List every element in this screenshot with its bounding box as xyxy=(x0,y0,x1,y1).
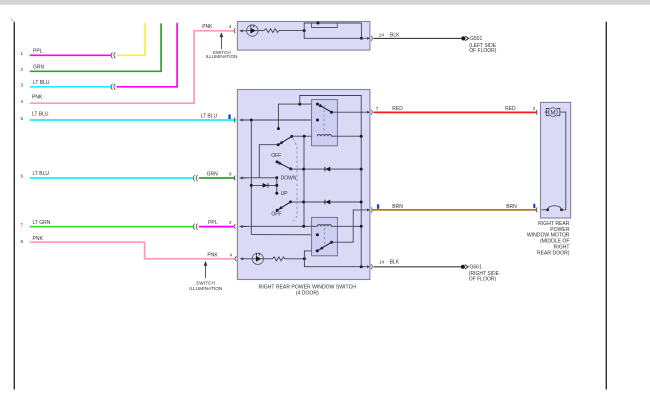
svg-text:BRN: BRN xyxy=(392,204,403,210)
svg-text:REAR DOOR): REAR DOOR) xyxy=(537,250,570,256)
node diode2 left xyxy=(302,201,305,204)
svg-text:7: 7 xyxy=(21,222,24,227)
inline connector blue marker BRN left xyxy=(377,204,379,209)
node A xyxy=(250,119,253,122)
top gray bar xyxy=(0,0,650,5)
svg-text:DOWN: DOWN xyxy=(281,176,297,182)
node diode1 right xyxy=(360,168,363,171)
right page border xyxy=(605,22,607,390)
switch blade pole 1 xyxy=(277,135,294,146)
svg-text:PNK: PNK xyxy=(32,95,43,101)
connector splice wire 3 xyxy=(111,84,115,90)
node 2 label xyxy=(21,64,45,72)
svg-text:OF FLOOR): OF FLOOR) xyxy=(469,48,497,54)
motor pin 3 entry arrow xyxy=(541,111,546,114)
wire pole3 to diode line 2 xyxy=(291,201,304,203)
wire 7 PPL continuation to pin 2 xyxy=(199,226,234,228)
svg-text:LT BLU: LT BLU xyxy=(201,114,218,120)
svg-text:RED: RED xyxy=(392,106,403,112)
pin 8 entry arrow xyxy=(239,177,247,180)
svg-text:7: 7 xyxy=(376,106,379,111)
motor pin BRN entry arrow xyxy=(541,208,546,211)
node diode feed xyxy=(250,184,253,187)
node pole1 top contact xyxy=(277,127,280,130)
node output junction xyxy=(360,37,363,40)
svg-text:PNK: PNK xyxy=(33,236,44,242)
node 1 label xyxy=(21,48,43,56)
svg-text:4: 4 xyxy=(230,253,233,258)
pin 8 connector arc xyxy=(234,176,235,180)
node diode mid xyxy=(275,184,278,187)
motor block body xyxy=(541,102,571,218)
inline connector blue marker BRN right xyxy=(533,204,535,209)
wire pole1 to relay1 coil xyxy=(292,135,318,137)
diode CR3 line 2 xyxy=(304,200,362,205)
switch blade pole 3 xyxy=(276,200,292,211)
node motor arc left xyxy=(546,208,549,211)
wire BLK to G661 xyxy=(373,266,461,268)
connector splice wire 6 xyxy=(193,175,197,181)
motor M1 symbol xyxy=(545,108,560,117)
node BLK junction xyxy=(360,265,363,268)
wire 3 PPL continuation xyxy=(117,23,178,87)
relay U2 hold contact xyxy=(316,233,319,236)
svg-text:3: 3 xyxy=(21,83,24,88)
svg-text:PPL: PPL xyxy=(33,48,43,54)
svg-text:4: 4 xyxy=(21,99,24,104)
pin LT BLU entry arrow xyxy=(239,119,247,122)
node lamp junction xyxy=(303,29,306,32)
relay U2 body xyxy=(312,217,338,255)
wire GRN riser to pole1 pivot xyxy=(259,145,278,178)
wire to relay 2 hold contact xyxy=(251,234,317,236)
svg-text:5: 5 xyxy=(21,116,24,121)
pin 14 connector arc main xyxy=(371,264,372,269)
motor brush arc xyxy=(548,206,562,210)
relay U2 blade xyxy=(316,241,333,253)
resistor R1 xyxy=(258,29,304,33)
node coil1 right xyxy=(360,135,363,138)
svg-text:G661: G661 xyxy=(470,265,482,271)
svg-text:BLK: BLK xyxy=(390,260,400,266)
relay U1 coil xyxy=(317,135,331,137)
pin 7 connector arc xyxy=(371,110,372,115)
svg-text:OFF: OFF xyxy=(271,153,281,159)
node motor arc right xyxy=(560,208,563,211)
wire top rail to right bus xyxy=(300,96,361,267)
svg-text:M: M xyxy=(551,110,556,116)
svg-text:SWITCH: SWITCH xyxy=(196,281,215,287)
svg-text:PNK: PNK xyxy=(202,24,213,30)
svg-text:GRN: GRN xyxy=(33,64,45,70)
left page border xyxy=(11,18,15,389)
wire pole1 top contact riser xyxy=(278,104,317,129)
ground G501 xyxy=(461,36,496,54)
pin 4 connector arc xyxy=(234,29,235,33)
resistor R2 xyxy=(264,257,305,261)
wire left bus xyxy=(250,120,252,235)
svg-text:GRN: GRN xyxy=(207,171,219,177)
pin 14 connector arc xyxy=(371,36,372,41)
switch block body xyxy=(237,90,370,280)
top block body xyxy=(237,22,370,51)
wire 6 LT BLU xyxy=(30,177,193,179)
wire 7 LT GRN xyxy=(30,226,193,228)
node 8 label xyxy=(21,236,44,244)
pin 4 entry arrow xyxy=(239,29,247,32)
wire DOWN-UP link xyxy=(276,178,278,194)
ground G661 xyxy=(461,265,500,283)
wire left inner bus xyxy=(303,136,305,226)
pin 14 exit arrow main xyxy=(367,265,371,268)
svg-text:RIGHT REAR POWER WINDOW SWITCH: RIGHT REAR POWER WINDOW SWITCH xyxy=(259,284,357,290)
svg-text:RED: RED xyxy=(505,106,516,112)
node top rail tap xyxy=(298,103,301,106)
motor pin 3 connector arc xyxy=(536,110,537,114)
svg-text:PPL: PPL xyxy=(208,220,218,226)
svg-text:8: 8 xyxy=(229,171,232,176)
wire lamp junction to pin 14 xyxy=(304,31,366,39)
diode CR1 xyxy=(251,183,276,188)
wire LT BLU feed xyxy=(243,119,318,121)
wire 1 YEL continuation xyxy=(117,23,146,55)
wire BLK to G501 xyxy=(373,37,462,39)
node diode2 right xyxy=(360,201,363,204)
dashed linkage line xyxy=(293,138,297,221)
pin BRN exit arrow xyxy=(367,208,371,211)
motor pin BRN connector arc xyxy=(536,208,537,212)
pin 14 label main xyxy=(379,260,400,266)
svg-text:2: 2 xyxy=(21,67,24,72)
wire 3 LT BLU xyxy=(30,86,111,88)
relay U2 dashed actuator xyxy=(324,228,326,245)
svg-text:BLK: BLK xyxy=(390,33,400,39)
svg-text:2: 2 xyxy=(533,106,536,111)
svg-text:G501: G501 xyxy=(470,36,482,42)
wire motor internal loop xyxy=(560,112,566,210)
pin BRN connector arc xyxy=(371,208,372,213)
node coil2 right xyxy=(360,225,363,228)
svg-text:8: 8 xyxy=(21,239,24,244)
pin 4 entry arrow main xyxy=(240,257,248,260)
wire pole2 to diode line 1 xyxy=(291,168,304,170)
svg-text:LT BLU: LT BLU xyxy=(33,80,50,86)
node 4 label xyxy=(21,95,43,104)
wire riser to top rail xyxy=(303,23,305,31)
node 3 label xyxy=(21,80,50,88)
pin 14 exit arrow xyxy=(367,37,371,40)
svg-text:ILLUMINATION: ILLUMINATION xyxy=(189,286,223,292)
pin 7 label xyxy=(376,106,403,112)
pin 2 label xyxy=(208,220,232,226)
connector splice wire 7 xyxy=(193,224,197,230)
wire coil1 to right bus xyxy=(331,135,361,137)
pin LT BLU connector arc xyxy=(234,118,235,122)
svg-text:LT GRN: LT GRN xyxy=(33,220,51,226)
svg-text:2: 2 xyxy=(229,220,232,225)
node diode1 left xyxy=(302,168,305,171)
wire 1 PPL xyxy=(30,54,111,56)
wire relay2 output to BRN pin xyxy=(332,210,367,242)
svg-text:BRN: BRN xyxy=(506,204,517,210)
relay U1 blade xyxy=(318,104,334,114)
pin 4 label top block xyxy=(202,24,232,30)
inline connector blue marker wire 5 xyxy=(228,115,230,120)
node lamp2 junction xyxy=(303,257,306,260)
svg-text:6: 6 xyxy=(21,174,24,179)
pin 8 label xyxy=(207,171,232,177)
node DOWN contact xyxy=(275,176,278,179)
pin 4 label main block xyxy=(207,253,232,259)
relay U1 lower contact xyxy=(316,119,319,122)
wire GRN feed to DOWN contact xyxy=(243,177,277,179)
connector splice wire 1 xyxy=(111,53,115,59)
svg-text:OF FLOOR): OF FLOOR) xyxy=(469,276,497,282)
svg-text:PNK: PNK xyxy=(207,253,218,259)
pin 4 connector arc main xyxy=(235,257,236,261)
wire 2 GRN xyxy=(30,23,161,71)
relay U2 coil xyxy=(317,225,331,227)
illumination lamp L2 xyxy=(247,253,264,265)
caption switch xyxy=(259,284,357,296)
svg-text:1: 1 xyxy=(21,51,24,56)
illumination lamp L1 xyxy=(247,25,258,37)
wire PPL feed to relay2 coil xyxy=(243,225,312,227)
pin 7 exit arrow xyxy=(367,111,371,114)
wire 4 PNK to switch illumination pin 4 xyxy=(30,31,234,103)
relay U1 body xyxy=(312,100,338,146)
node UP contact xyxy=(275,192,278,195)
wire drop to output xyxy=(360,23,362,38)
diode CR2 line 1 xyxy=(304,167,361,172)
svg-text:4: 4 xyxy=(229,24,232,29)
RED labels xyxy=(505,106,536,112)
svg-text:UP: UP xyxy=(281,191,289,197)
top rail wire xyxy=(304,22,362,24)
wire lamp2 to relay2 contact xyxy=(304,251,317,259)
node 6 label xyxy=(21,171,50,179)
node coil2 feed xyxy=(302,225,305,228)
pin 2 connector arc xyxy=(234,224,235,228)
relay U1 top contact xyxy=(316,103,319,106)
svg-text:LT BLU: LT BLU xyxy=(32,112,49,118)
relay U1 dashed actuator xyxy=(323,105,325,130)
wire lamp2 to pin 14 xyxy=(304,259,366,267)
pin 2 entry arrow xyxy=(239,225,247,228)
wire 5 LT BLU into switch xyxy=(30,119,237,121)
sub-box pocket xyxy=(312,23,338,27)
svg-text:LT BLU: LT BLU xyxy=(33,171,50,177)
pin 14 label top xyxy=(379,33,400,39)
svg-text:14: 14 xyxy=(379,33,385,38)
node 7 label xyxy=(21,220,51,227)
svg-text:(4 DOOR): (4 DOOR) xyxy=(296,291,319,297)
wire 8 PNK to switch pin 4 xyxy=(30,242,235,259)
wire 6 GRN continuation to pin 8 xyxy=(199,177,235,179)
node coil feed junction xyxy=(303,135,306,138)
switch blade pole 2 xyxy=(276,160,293,170)
BRN labels xyxy=(392,204,517,210)
wire BRN entry to arc xyxy=(542,209,548,211)
node on top rail xyxy=(317,22,320,25)
svg-text:ILLUMINATION: ILLUMINATION xyxy=(206,54,238,59)
wire coil2 within box xyxy=(312,225,362,227)
svg-text:14: 14 xyxy=(379,260,385,265)
node 5 label xyxy=(21,112,49,121)
wire relay1 output to pin 7 xyxy=(332,111,367,113)
caption motor xyxy=(527,221,570,257)
svg-text:OFF: OFF xyxy=(271,211,281,217)
